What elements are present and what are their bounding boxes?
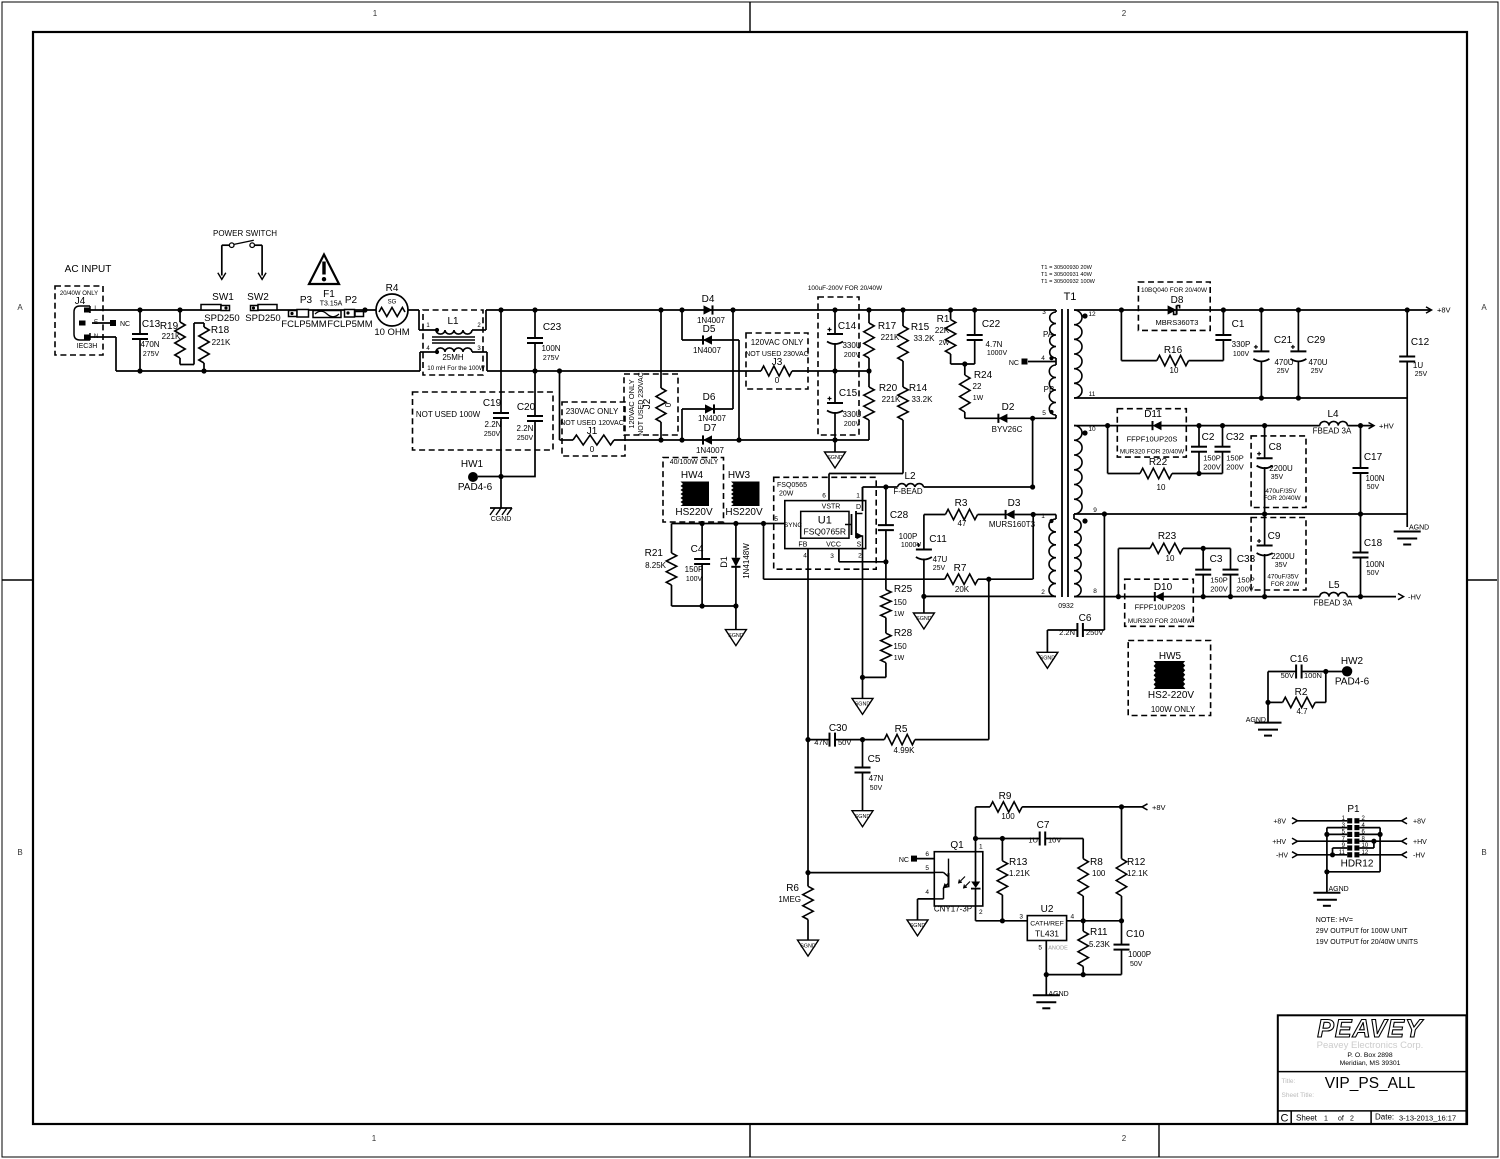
svg-text:100V: 100V [686,576,703,583]
opto Q1 led [959,852,981,921]
label Title [1282,1078,1296,1085]
capacitor C1 [1215,310,1250,361]
label pin L [94,306,98,312]
svg-text:+HV: +HV [1379,422,1394,431]
svg-text:T1: T1 [1064,291,1077,303]
label pin 12 [1088,311,1096,318]
junction C11 bottom [921,594,926,599]
svg-text:+8V: +8V [1413,819,1426,826]
svg-text:10 mH For the 100W: 10 mH For the 100W [427,365,485,372]
ic U1 dashed box [774,477,877,569]
ground AGND U2 [1033,991,1069,1008]
diode D3 [989,498,1036,529]
junction C15 bottom [832,437,837,442]
svg-text:150: 150 [893,642,907,651]
resistor R17 [864,310,900,371]
junction C3 bottom [1201,594,1206,599]
wire P1 pin8 [1359,840,1374,842]
svg-text:MURS160T3: MURS160T3 [989,520,1036,529]
svg-text:19V OUTPUT for 20/40W UNITS: 19V OUTPUT for 20/40W UNITS [1316,939,1419,946]
label Sheet Title [1282,1092,1315,1099]
capacitor C11 [916,515,948,597]
junction C9 bottom [1262,594,1267,599]
label L1 pin 3 [477,346,481,352]
label D11 [1144,409,1162,420]
svg-text:47: 47 [958,519,967,528]
diode D11 box [1117,409,1186,457]
svg-text:U2: U2 [1041,904,1054,915]
ground AGND P1 [1313,872,1348,906]
capacitor C12 [1399,310,1429,398]
svg-text:Title:: Title: [1282,1078,1296,1085]
svg-text:-HV: -HV [1413,853,1425,860]
junction R12 bottom [1119,918,1124,923]
wire pin9 tap down [1103,514,1105,630]
svg-text:5: 5 [1042,410,1046,417]
junction C30 C5 [860,737,865,742]
svg-text:200V: 200V [1236,585,1254,594]
svg-text:R15: R15 [911,322,930,333]
junction FB C30 [805,737,810,742]
svg-text:CGND: CGND [491,516,512,523]
capacitor C14 [827,310,862,371]
svg-text:VCC: VCC [826,542,841,549]
svg-text:HW5: HW5 [1159,651,1182,662]
svg-text:A: A [1481,303,1487,312]
svg-text:150P: 150P [685,565,704,574]
power switch symbol [218,240,266,279]
resistor R9 [976,791,1122,821]
wire AC neutral [90,337,869,371]
ground SGND R28 [852,698,873,714]
svg-text:B: B [1481,848,1486,857]
inductor L5 [1314,580,1353,608]
ground SGND C11 [913,613,934,629]
label L1 pin 1 [426,323,430,329]
svg-text:D3: D3 [1008,498,1021,509]
svg-text:+8V: +8V [1152,803,1166,812]
resistor R16 [1121,310,1223,375]
svg-text:Sheet Title:: Sheet Title: [1282,1092,1315,1099]
svg-text:SGND: SGND [855,814,871,820]
resistor R14 [898,383,933,474]
diode D11 [1120,421,1185,456]
svg-text:R2: R2 [1295,687,1308,698]
wire P1 -HV left [1276,852,1347,860]
svg-text:35V: 35V [1275,562,1288,569]
svg-text:C2: C2 [1202,432,1215,443]
junction D1 bottom [733,603,738,608]
svg-text:D7: D7 [704,423,717,434]
svg-text:NOT USED 100W: NOT USED 100W [416,410,481,419]
label T1 partnumbers [1041,265,1096,285]
polarity dot pin9b [1082,518,1087,523]
svg-text:D: D [856,504,861,511]
svg-text:L4: L4 [1327,409,1339,420]
junction D2 node [1030,416,1035,421]
wire DC minus rail [560,420,870,440]
label U1 pin3 [826,542,841,561]
svg-text:B: B [17,848,22,857]
capacitor C8 [1257,426,1302,514]
capacitor C2 [1191,426,1221,474]
wire P1 pin9 jog [1333,848,1348,855]
svg-text:4.99K: 4.99K [894,746,916,755]
svg-text:200V: 200V [1203,463,1221,472]
svg-text:10: 10 [1166,554,1175,563]
resistor R18 [199,323,231,371]
svg-text:T1 = 30500932 100W: T1 = 30500932 100W [1041,279,1096,285]
junction C1 top [1221,307,1226,312]
svg-text:47N: 47N [814,738,828,747]
label VIP_PS_ALL [1325,1075,1416,1092]
junction R11 bottom [1081,972,1086,977]
svg-text:SYNC: SYNC [784,522,802,529]
resistor R3 [945,498,977,528]
fuse F1 [313,289,343,318]
svg-text:4: 4 [925,889,929,896]
zone label A right [1481,303,1487,312]
svg-text:221K: 221K [162,332,181,341]
svg-text:R24: R24 [974,370,993,381]
svg-text:0932: 0932 [1058,603,1074,610]
junction pin9 tap [1102,511,1107,516]
wire R6 to Q1 [808,872,934,874]
wire +8V feed [1122,803,1166,812]
svg-text:470N: 470N [140,340,159,349]
wire D6 row [682,409,733,440]
diode D10 [1128,592,1193,625]
svg-text:NOTE: HV=: NOTE: HV= [1316,917,1353,924]
wire R3 row [924,514,946,516]
wire U2 pin4 row [1067,920,1122,922]
svg-text:R18: R18 [211,325,230,336]
svg-text:L1: L1 [447,316,459,327]
junction D4 cathode [730,307,735,312]
capacitor C20 [501,371,543,477]
svg-text:1000V: 1000V [987,350,1008,357]
svg-text:C10: C10 [1126,929,1145,940]
svg-text:50V: 50V [1367,484,1380,491]
svg-text:C28: C28 [890,510,909,521]
jumper J2 box [624,374,678,435]
junction R16 top [1119,307,1124,312]
svg-text:2W: 2W [939,340,950,347]
label U1 pin2 [857,542,863,560]
svg-text:2200U: 2200U [1269,464,1293,473]
label P1 pins left [1339,816,1346,856]
no-connect NC Q1 [899,856,934,864]
svg-text:D10: D10 [1154,582,1173,593]
svg-text:R5: R5 [895,724,908,735]
resistor R11 [1078,921,1111,975]
label pin 9 [1093,507,1097,514]
svg-text:33.2K: 33.2K [912,395,934,404]
junction R17 top [866,307,871,312]
svg-text:C: C [1281,1113,1289,1125]
wire D2 row [965,417,1056,419]
jumper J3 box [746,333,808,389]
label U1 pin5 [774,516,802,529]
polarity dot pin10 [1082,430,1087,435]
svg-text:PB: PB [1044,385,1055,394]
label 40/100W ONLY [670,459,719,466]
zone label 1 bottom [372,1134,377,1143]
svg-text:Q1: Q1 [950,840,964,851]
capacitor C7 [1028,820,1061,846]
svg-text:NC: NC [120,321,130,328]
svg-text:R20: R20 [879,383,898,394]
svg-text:C15: C15 [839,388,858,399]
svg-text:1N4148W: 1N4148W [742,543,751,579]
svg-text:4: 4 [803,553,807,560]
svg-text:C11: C11 [929,534,947,545]
resistor R8 [1078,857,1106,921]
wire D5 row [682,310,739,340]
svg-text:2: 2 [858,553,862,560]
no-connect NC T1 [1009,359,1028,368]
junction R6 top [805,870,810,875]
resistor R1 [935,310,956,364]
transformer T1 winding PA [1050,310,1056,362]
junction C3 top [1201,546,1206,551]
svg-text:R19: R19 [160,321,179,332]
svg-text:150: 150 [893,598,907,607]
switch SW1 [201,292,240,324]
svg-text:200V: 200V [1226,463,1244,472]
resistor R23 [1150,531,1183,563]
label L1 [447,316,459,327]
svg-text:VIP_PS_ALL: VIP_PS_ALL [1325,1075,1416,1092]
label J1 [587,426,598,437]
svg-text:50V: 50V [1281,671,1294,680]
svg-text:1N4007: 1N4007 [698,414,727,423]
label AC INPUT [65,264,112,275]
svg-text:HW4: HW4 [681,470,704,481]
label L1 pin 4 [426,346,430,352]
svg-text:SGND: SGND [827,455,843,461]
svg-text:TL431: TL431 [1035,929,1059,939]
svg-text:VSTR: VSTR [822,504,841,511]
svg-text:33.2K: 33.2K [914,334,936,343]
svg-text:2200U: 2200U [1271,552,1295,561]
transformer T1 winding 12-11 [1074,310,1082,398]
wire Q1 pin4 gnd [918,899,935,920]
resistor R2 [1268,672,1326,717]
resistor R13 [997,839,1030,921]
svg-text:C3: C3 [1210,554,1223,565]
inductor L1 top winding [436,330,472,334]
not used 100W box [413,392,554,450]
label pin 1 [1041,513,1045,520]
hw box HW5 [1128,641,1210,716]
junction R24 top [962,361,967,366]
svg-text:D8: D8 [1171,295,1184,306]
wire P1 gnd loop bottom [1327,871,1380,873]
junction R17 bottom [866,368,871,373]
junction C12 top [1405,307,1410,312]
inductor L4 [1313,409,1352,436]
label pin 11 [1089,391,1096,398]
label pin 10 [1088,426,1096,433]
junction C23 bottom [532,368,537,373]
title block box [1278,1015,1467,1124]
svg-text:50V: 50V [870,785,883,792]
wire C7 to R8 [1045,839,1083,859]
svg-text:Meridian, MS 39301: Meridian, MS 39301 [1340,1060,1401,1067]
mosfet U1 internal [845,487,863,549]
junction D7 anode [736,437,741,442]
jumper J2 [656,310,673,440]
capacitor C28 [878,487,922,562]
label PB [1044,385,1055,394]
wire +8V rail [1074,306,1451,315]
svg-text:D6: D6 [703,392,716,403]
label pin 3 [1042,309,1046,316]
ground SGND Q1 [907,920,928,936]
svg-text:D11: D11 [1144,409,1162,420]
resistor R22 [1140,457,1172,492]
ground SGND primary [825,452,846,468]
junction C19 top [498,307,503,312]
svg-text:1U: 1U [1413,361,1423,370]
pad HW2 [1326,656,1370,688]
svg-text:1MEG: 1MEG [778,895,801,904]
wire L4 out [1347,422,1393,431]
svg-text:FCLP5MM: FCLP5MM [327,319,372,330]
zone label B left [17,848,22,857]
svg-text:1: 1 [979,844,983,851]
svg-text:10: 10 [1170,366,1179,375]
svg-text:+HV: +HV [1272,839,1286,846]
label PA [1043,330,1054,339]
junction C13 top [137,307,142,312]
label 230VAC ONLY [566,407,619,416]
wire pin5 to L2 [1032,418,1034,487]
svg-text:C5: C5 [868,754,881,765]
wire R7 down to R5 [988,579,990,739]
svg-text:SGND: SGND [800,943,816,949]
wire AGND mid rail [1074,513,1407,515]
resistor R6 [778,873,813,941]
title block dividers [1278,1072,1467,1124]
label FSQ0565 20W [777,482,807,498]
wire P1 pin10 jog [1359,841,1374,848]
wire C7 row [976,838,1040,840]
svg-text:S: S [857,542,862,549]
svg-text:C29: C29 [1307,335,1326,346]
svg-text:C32: C32 [1226,432,1245,443]
label NOT USED 120VAC [560,420,624,427]
svg-text:25V: 25V [1311,368,1324,375]
svg-text:of: of [1338,1116,1344,1123]
svg-text:P3: P3 [300,295,313,306]
wire C11 to SGND [923,596,925,613]
wire pin2 row [924,595,1056,597]
junction C2 top [1196,423,1201,428]
zone label 1 top [373,9,378,18]
junction J2 bottom [658,437,663,442]
svg-text:100N: 100N [1365,474,1384,483]
inductor L1 box [423,310,483,375]
junction P1 pin8 [1371,839,1376,844]
resistor R7 [945,563,978,594]
hw box 40/100W [663,458,724,523]
label Sheet 1 of 2 [1296,1114,1354,1123]
svg-text:PAD4-6: PAD4-6 [458,482,493,493]
svg-text:D4: D4 [702,294,715,305]
svg-text:SW1: SW1 [212,292,234,303]
label P1 pins right [1362,816,1369,856]
svg-text:250V: 250V [517,435,534,442]
capacitor C5 [855,740,884,811]
no-connect NC J4 [110,320,130,328]
label 120VAC ONLY rotated [627,379,636,428]
svg-text:25V: 25V [1415,371,1428,378]
junction D3 out [1031,512,1036,517]
wire P1 +8V right [1359,818,1426,826]
wire U2 anode [1045,941,1047,975]
svg-text:HS220V: HS220V [675,507,713,518]
resistor R25 [881,562,913,633]
svg-text:120VAC ONLY: 120VAC ONLY [751,338,804,347]
svg-text:C14: C14 [838,321,857,332]
svg-text:1W: 1W [894,611,905,618]
capacitor C9 [1257,514,1301,597]
junction SYNC R7tap [761,521,766,526]
svg-text:C21: C21 [1274,335,1293,346]
svg-text:PA: PA [1043,330,1054,339]
diode D4 [697,294,726,325]
label U1 pin1 [856,493,861,512]
svg-text:1.21K: 1.21K [1009,869,1031,878]
svg-text:100N: 100N [1365,560,1384,569]
junction C16 right [1323,669,1328,674]
wire pin10 row [1074,425,1153,427]
svg-text:ANODE: ANODE [1048,946,1068,952]
wire VSTR feed [829,474,903,501]
label U2 pin3 [1019,914,1023,921]
svg-text:5: 5 [774,516,778,523]
capacitor C18 [1353,514,1385,597]
jumper J1 [573,435,614,454]
svg-text:FB: FB [798,542,807,549]
svg-text:4: 4 [1041,355,1045,362]
label pin N [94,334,98,340]
capacitor C3 [1195,548,1228,596]
capacitor C33 [1223,554,1256,597]
svg-text:SG: SG [388,300,397,306]
zone label A left [17,303,23,312]
label Q1 pin5 [925,865,929,872]
svg-text:1000P: 1000P [1128,950,1151,959]
svg-text:R6: R6 [786,883,799,894]
svg-text:FCLP5MM: FCLP5MM [281,319,326,330]
svg-text:3: 3 [830,553,834,560]
svg-text:R17: R17 [878,321,897,332]
svg-text:SGND: SGND [916,616,932,622]
capacitor C16 [1268,654,1326,680]
chassis ground CGND [490,508,512,523]
cap C8 box [1251,436,1306,508]
label 25MH [442,353,464,362]
svg-text:35V: 35V [1271,474,1284,481]
wire D11 out row [1162,425,1320,427]
svg-text:A: A [17,303,23,312]
capacitor C30 [808,723,863,747]
wire SYNC to R7 row [763,524,765,580]
svg-text:P1: P1 [1347,804,1360,815]
